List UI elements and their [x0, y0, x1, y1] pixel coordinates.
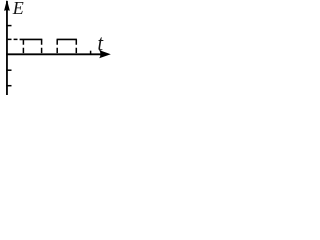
- dashed amplitude level line: [8, 38, 20, 40]
- pulse 1 rising edge (dashed): [22, 39, 24, 54]
- background: [0, 0, 112, 95]
- E axis (vertical): [6, 1, 8, 95]
- pulse 2 top: [57, 38, 77, 40]
- pulse 1 falling edge (dashed): [41, 39, 43, 54]
- pulse 2 rising edge (dashed): [56, 39, 58, 54]
- t axis tick x90: [90, 51, 92, 55]
- E axis arrowhead: [4, 0, 10, 11]
- t axis (horizontal): [6, 53, 101, 55]
- E axis tick y85: [6, 85, 11, 87]
- pulse 2 falling edge (dashed): [75, 39, 77, 54]
- pulse 1 top: [20, 38, 43, 40]
- svg-text:E: E: [12, 0, 24, 18]
- E axis tick y25: [6, 25, 11, 27]
- t axis arrowhead: [99, 50, 111, 58]
- E axis tick y70: [6, 69, 11, 71]
- svg-text:t: t: [98, 30, 104, 56]
